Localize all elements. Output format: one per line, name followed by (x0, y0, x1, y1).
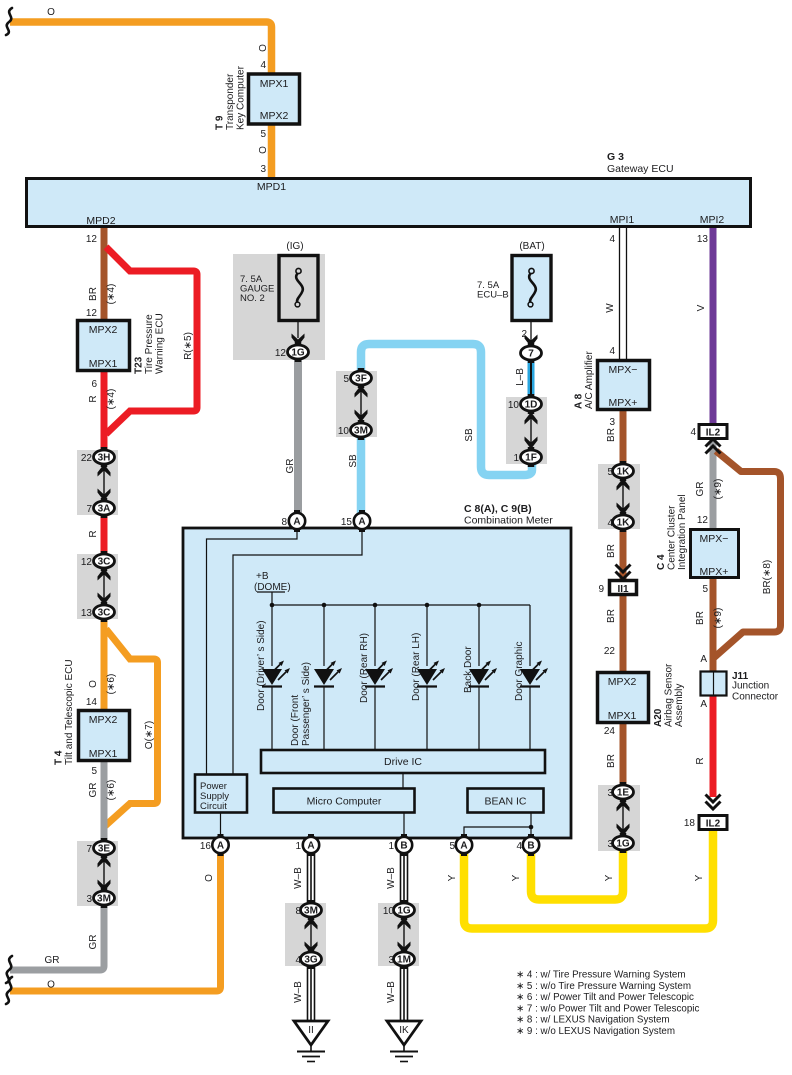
tire pressure warning ECU T23 box (78, 321, 130, 371)
svg-text:A/C Amplifier: A/C Amplifier (584, 351, 595, 409)
meter pin circle 1 A (303, 834, 319, 856)
svg-text:5: 5 (702, 584, 708, 595)
svg-text:1: 1 (295, 841, 301, 852)
svg-text:Y: Y (694, 874, 705, 881)
svg-text:C 8(A), C 9(B): C 8(A), C 9(B) (464, 503, 532, 515)
svg-text:1G: 1G (291, 348, 305, 359)
shade behind connectors 3C/3C (77, 554, 118, 619)
transponder key computer T9 box (249, 74, 300, 124)
svg-text:A: A (293, 517, 300, 528)
wire BR from A8 MPX+ pin 3 to connector 1K (620, 410, 627, 465)
svg-text:(∗6): (∗6) (106, 780, 117, 801)
svg-text:1K: 1K (617, 518, 631, 529)
wire O from Combination Meter pin 16 A to page-link bottom left (10, 850, 221, 991)
junction II1 box (610, 581, 637, 595)
svg-text:MPI1: MPI1 (610, 214, 635, 226)
combination meter box C8/C9 (183, 528, 571, 838)
svg-text:(IG): (IG) (286, 241, 303, 252)
svg-text:8: 8 (281, 517, 287, 528)
svg-text:10: 10 (508, 400, 520, 411)
svg-text:13: 13 (697, 234, 709, 245)
wire micro computer to pin 1 B (403, 813, 405, 839)
svg-text:MPX−: MPX− (700, 533, 729, 545)
svg-text:IK: IK (399, 1025, 409, 1036)
connector oval 7 (fuse ECU-B) (521, 343, 542, 363)
shade behind connectors 1D/1F (506, 397, 547, 464)
svg-text:4: 4 (516, 841, 522, 852)
svg-text:BR: BR (606, 428, 617, 442)
connector oval 1E (613, 782, 634, 802)
svg-text:SB: SB (348, 454, 359, 468)
wire L-B from fuse ECU-B connector 7 to connector 1D (528, 359, 535, 399)
micro computer box (274, 789, 415, 813)
wire O(*7) bypass loop around T4 (105, 629, 158, 826)
svg-text:A 8: A 8 (574, 393, 585, 409)
connector oval 3C pin 12 (94, 551, 115, 571)
svg-text:O: O (88, 680, 99, 688)
wire O from page-link to T9 MPX1 pin 4 (10, 22, 272, 74)
svg-text:W–B: W–B (293, 981, 304, 1003)
C4 designator rotated (656, 494, 688, 570)
svg-text:Connector: Connector (732, 692, 779, 703)
wire BR(*8) bypass loop around C4 (713, 451, 781, 659)
svg-text:8: 8 (295, 906, 301, 917)
svg-text:O: O (258, 146, 269, 154)
connector oval 1G pin 10 (394, 900, 415, 920)
svg-text:L–B: L–B (515, 368, 526, 386)
shield chevron below IL2 pin 4 (706, 439, 721, 454)
svg-text:A: A (358, 517, 365, 528)
svg-text:A: A (700, 699, 707, 710)
svg-text:MPX2: MPX2 (89, 324, 118, 336)
svg-text:10: 10 (383, 906, 395, 917)
wire W-B from Combination Meter pin 1 A to ground II (308, 850, 315, 1021)
svg-text:A: A (460, 841, 467, 852)
shield chevron above II1 (616, 565, 631, 580)
svg-text:Airbag Sensor: Airbag Sensor (664, 663, 675, 727)
svg-text:12: 12 (86, 234, 98, 245)
svg-text:ECU–B: ECU–B (477, 290, 509, 301)
svg-text:T23: T23 (134, 356, 145, 374)
svg-text:MPD1: MPD1 (257, 181, 286, 193)
svg-text:MPX2: MPX2 (260, 110, 289, 122)
A20 designator rotated (653, 663, 685, 727)
+B bus junction dots (270, 603, 275, 608)
pass-through arrow 3H to 3A (98, 464, 111, 501)
svg-text:3F: 3F (355, 374, 367, 385)
svg-text:B: B (527, 841, 534, 852)
shade behind connectors 1G/1M (378, 903, 419, 966)
svg-text:24: 24 (604, 726, 616, 737)
svg-text:5: 5 (607, 467, 613, 478)
svg-text:Door (Front: Door (Front (290, 695, 301, 746)
pass-through arrow 1G to 1M (398, 917, 411, 954)
svg-text:5: 5 (91, 766, 97, 777)
svg-text:IL2: IL2 (706, 428, 721, 439)
svg-text:T 4: T 4 (54, 750, 65, 765)
wire GR from connector 3M to page-link bottom left (10, 904, 104, 970)
svg-text:Circuit: Circuit (200, 801, 227, 812)
wire power supply circuit to pin 16 A (220, 813, 222, 839)
junction connector J11 box (701, 672, 727, 696)
svg-text:5: 5 (343, 374, 349, 385)
svg-text:3: 3 (607, 839, 613, 850)
svg-text:1D: 1D (525, 400, 538, 411)
svg-text:Door (Rear RH): Door (Rear RH) (359, 633, 370, 703)
wire GR from fuse 1G to Combination Meter pin 8 A (294, 358, 302, 516)
meter pin circle 4 B (523, 834, 539, 856)
svg-text:5: 5 (260, 129, 266, 140)
fuse ECU-B rating (477, 280, 509, 301)
gateway ECU G3 box (27, 179, 751, 227)
svg-text:O(∗7): O(∗7) (144, 721, 155, 749)
svg-text:∗ 7 : w/o Power Tilt and Power: ∗ 7 : w/o Power Tilt and Power Telescopi… (516, 1003, 699, 1014)
wire V from Gateway MPI2 pin 13 to junction IL2 pin 4 (710, 228, 717, 424)
svg-text:Transponder: Transponder (225, 73, 236, 130)
svg-text:1: 1 (513, 453, 519, 464)
connector oval 3C pin 13 (94, 602, 115, 622)
svg-text:MPD2: MPD2 (86, 215, 115, 227)
ground IK (387, 1021, 421, 1062)
fuse GAUGE NO.2 box (279, 256, 318, 321)
svg-text:(∗4): (∗4) (106, 284, 117, 305)
meter internal wire from pin 8 A to power supply circuit (207, 528, 298, 774)
svg-text:IL2: IL2 (706, 819, 721, 830)
svg-text:3: 3 (607, 788, 613, 799)
svg-text:R: R (88, 395, 99, 402)
connector oval 3G (301, 949, 322, 969)
svg-text:A: A (307, 841, 314, 852)
svg-text:14: 14 (86, 697, 98, 708)
wire O from T9 MPX2 pin 5 to Gateway ECU MPD1 pin 3 (268, 123, 276, 178)
svg-text:Tire Pressure: Tire Pressure (144, 314, 155, 374)
meter pin circle 5 A (456, 834, 472, 856)
svg-text:Drive IC: Drive IC (384, 756, 422, 768)
svg-text:3E: 3E (98, 844, 111, 855)
meter designator (464, 503, 553, 527)
svg-text:R: R (695, 757, 706, 764)
fuse ECU-B element (528, 268, 536, 307)
svg-text:GR: GR (88, 935, 99, 950)
connector oval 1F (521, 447, 542, 467)
power supply circuit box (195, 775, 247, 813)
svg-text:Key Computer: Key Computer (236, 65, 247, 130)
svg-text:MPX−: MPX− (609, 364, 638, 376)
meter pin circle 1 B (396, 834, 412, 856)
wire R from T23 MPX1 pin 6 to connector 3H (101, 372, 108, 452)
page link squiggle O bottom left (6, 977, 12, 1004)
svg-text:7: 7 (86, 844, 92, 855)
wire SB from connector 3F up over to connector 1F (361, 344, 532, 475)
svg-text:B: B (400, 841, 407, 852)
wire R(*5) bypass loop around T23 (106, 247, 197, 434)
wire Y from IL2 pin 18 down and Combination Meter pin 5 A (464, 830, 713, 929)
wire O from connector 3C pin 13 to T4 MPX2 pin 14 (101, 617, 108, 710)
+B (DOME) label (254, 571, 291, 593)
svg-text:4: 4 (607, 518, 613, 529)
svg-text:II: II (308, 1025, 314, 1036)
shade behind fuse GAUGE NO.2 and connector 1G (233, 254, 325, 360)
svg-text:∗ 5 : w/o Tire Pressure Warnin: ∗ 5 : w/o Tire Pressure Warning System (516, 981, 691, 992)
svg-text:BR: BR (695, 611, 706, 625)
svg-text:∗ 4 : w/ Tire Pressure Warning: ∗ 4 : w/ Tire Pressure Warning System (516, 970, 686, 981)
shield chevron above IL2 pin 18 (706, 795, 721, 810)
svg-text:10: 10 (338, 426, 350, 437)
svg-text:1: 1 (388, 841, 394, 852)
svg-text:MPX1: MPX1 (89, 748, 118, 760)
svg-text:3C: 3C (98, 608, 111, 619)
T9 designator rotated (215, 65, 247, 130)
shade behind connectors 3E/3M (77, 841, 118, 906)
LED column wires to drive IC (272, 687, 530, 750)
connector oval 3A (94, 498, 115, 518)
svg-text:Y: Y (511, 874, 522, 881)
svg-text:GR: GR (695, 482, 706, 497)
svg-text:BR: BR (606, 609, 617, 623)
svg-text:A20: A20 (653, 708, 664, 727)
svg-text:∗ 9 : w/o LEXUS Navigation Sys: ∗ 9 : w/o LEXUS Navigation System (516, 1026, 675, 1037)
shade behind connectors 3M/3G (285, 903, 326, 966)
T4 designator rotated (54, 659, 76, 765)
wire R from J11 to junction IL2 pin 18 (710, 696, 717, 797)
connector oval 3E (94, 838, 115, 858)
svg-text:Combination Meter: Combination Meter (464, 515, 553, 527)
svg-text:W: W (605, 303, 616, 313)
svg-text:3: 3 (609, 417, 615, 428)
svg-text:3A: 3A (98, 504, 111, 515)
BEAN IC wire junction dot (529, 825, 534, 830)
thin lead fuse ECU-B pin 2 to connector 7 with arrow (530, 321, 532, 341)
LED door driver's side (262, 661, 290, 687)
svg-text:16: 16 (200, 841, 212, 852)
notes (516, 970, 699, 1038)
wire SB from connector 3M to Combination Meter pin 15 A (357, 436, 366, 516)
svg-text:3M: 3M (354, 426, 368, 437)
svg-text:3H: 3H (98, 453, 111, 464)
svg-text:(DOME): (DOME) (254, 582, 291, 593)
svg-text:∗ 6 : w/ Power Tilt and Power: ∗ 6 : w/ Power Tilt and Power Telescopic (516, 992, 694, 1003)
svg-text:4: 4 (295, 955, 301, 966)
svg-text:R: R (88, 530, 99, 537)
LED door graphic (520, 661, 548, 687)
airbag sensor assembly A20 box (598, 673, 649, 723)
svg-text:3: 3 (260, 164, 266, 175)
arrow into connector 1G (292, 334, 305, 347)
meter internal wire from pin 15 A to power supply circuit (233, 528, 362, 774)
svg-text:(∗4): (∗4) (106, 389, 117, 410)
LED door rear RH (365, 661, 393, 687)
connector oval 3F (351, 368, 372, 388)
svg-text:MPX1: MPX1 (89, 358, 118, 370)
drive IC box (261, 750, 545, 773)
svg-text:O: O (47, 980, 55, 991)
BEAN IC box (468, 789, 544, 813)
svg-text:9: 9 (598, 584, 604, 595)
svg-text:Warning ECU: Warning ECU (155, 313, 166, 374)
LED label door front passenger's side (290, 662, 312, 746)
svg-text:Junction: Junction (732, 681, 769, 692)
junction IL2 pin 18 box (699, 816, 727, 830)
svg-text:Y: Y (447, 874, 458, 881)
svg-text:Tilt and Telescopic ECU: Tilt and Telescopic ECU (64, 659, 75, 765)
svg-text:1G: 1G (616, 839, 630, 850)
meter pin circle 16 A (212, 834, 228, 856)
svg-text:R(∗5): R(∗5) (183, 332, 194, 360)
wire drive IC to micro computer (402, 773, 404, 788)
svg-text:Door (Rear LH): Door (Rear LH) (411, 633, 422, 701)
thin lead fuse GAUGE to connector 1G with arrow (297, 305, 299, 338)
svg-text:4: 4 (609, 234, 615, 245)
pass-through arrow 3C to 3C (98, 568, 111, 605)
pass-through arrow 3F to 3M (355, 385, 368, 422)
svg-text:6: 6 (91, 379, 97, 390)
svg-text:3M: 3M (97, 894, 111, 905)
svg-text:1G: 1G (397, 906, 411, 917)
svg-text:BR: BR (606, 754, 617, 768)
svg-text:7: 7 (86, 504, 92, 515)
svg-text:Assembly: Assembly (674, 684, 685, 727)
connector oval 1G (A20 chain) (613, 833, 634, 853)
wire BR from Gateway MPD2 pin 12 to T23 MPX2 pin 12 (101, 228, 108, 320)
connector oval 3M (351, 420, 372, 440)
svg-text:7: 7 (528, 349, 534, 360)
svg-text:5: 5 (449, 841, 455, 852)
svg-text:SB: SB (464, 428, 475, 442)
A/C amplifier A8 box (598, 361, 650, 410)
J11 designator (732, 671, 779, 703)
fuse ECU-B box (512, 256, 551, 321)
svg-text:G 3: G 3 (607, 151, 624, 163)
svg-text:13: 13 (81, 608, 93, 619)
fuse GAUGE rating (240, 274, 274, 304)
svg-text:1K: 1K (617, 467, 631, 478)
A8 designator rotated (574, 351, 596, 409)
svg-text:MPX1: MPX1 (260, 78, 289, 90)
svg-text:Y: Y (604, 874, 615, 881)
svg-text:MPX1: MPX1 (608, 710, 637, 722)
power supply circuit label (200, 781, 229, 812)
svg-text:15: 15 (341, 517, 353, 528)
LED door front passenger's side (314, 661, 342, 687)
svg-text:3M: 3M (304, 906, 318, 917)
svg-text:12: 12 (275, 348, 287, 359)
svg-text:+B: +B (256, 571, 269, 582)
wire Y from Combination Meter pin 4 B to connector 1G of A20 chain (531, 849, 623, 900)
svg-text:W–B: W–B (386, 867, 397, 889)
svg-text:T 9: T 9 (215, 115, 226, 130)
T23 designator rotated (134, 313, 166, 374)
wire BR from junction II1 to A20 MPX2 pin 22 (620, 596, 627, 672)
svg-text:BR(∗8): BR(∗8) (762, 560, 773, 595)
pass-through arrow 1D to 1F (525, 412, 538, 449)
LED back door (469, 661, 497, 687)
svg-text:1M: 1M (397, 955, 411, 966)
svg-text:W–B: W–B (386, 981, 397, 1003)
svg-text:Gateway ECU: Gateway ECU (607, 163, 674, 175)
svg-text:O: O (47, 7, 55, 18)
svg-text:O: O (258, 44, 269, 52)
svg-text:MPX+: MPX+ (609, 397, 638, 409)
connector oval 3M pin 8 (301, 900, 322, 920)
fuse GAUGE NO.2 element (295, 268, 303, 307)
svg-text:(BAT): (BAT) (519, 241, 544, 252)
svg-text:C 4: C 4 (656, 554, 667, 570)
wire W from Gateway MPI1 pin 4 to A8 MPX- pin 4 (620, 228, 627, 359)
svg-text:MPX2: MPX2 (608, 676, 637, 688)
svg-text:4: 4 (260, 60, 266, 71)
junction IL2 pin 4 box (699, 425, 727, 439)
svg-text:(∗6): (∗6) (106, 674, 117, 695)
svg-text:Integration Panel: Integration Panel (677, 494, 688, 570)
svg-text:2: 2 (521, 329, 527, 340)
svg-text:12: 12 (86, 308, 98, 319)
shade behind connectors 1K/1K (598, 464, 640, 529)
svg-text:A: A (700, 654, 707, 665)
svg-text:Door (Driver’ s Side): Door (Driver’ s Side) (256, 620, 267, 711)
svg-text:BR: BR (606, 544, 617, 558)
wire BR from A20 MPX1 pin 24 to connector 1E (620, 723, 627, 787)
svg-text:MPX2: MPX2 (89, 714, 118, 726)
svg-text:(∗9): (∗9) (713, 608, 724, 629)
wire GR(*9) from junction IL2 to C4 MPX- pin 12 (710, 439, 717, 529)
svg-text:Micro Computer: Micro Computer (307, 796, 382, 808)
connector oval 3H (94, 447, 115, 467)
arrow into connector 7 (525, 335, 538, 348)
svg-text:Passenger’ s Side): Passenger’ s Side) (301, 662, 312, 746)
shade behind connectors 1E/1G (598, 785, 640, 851)
svg-text:BEAN IC: BEAN IC (484, 796, 526, 808)
meter pin circle 15 A (354, 510, 370, 532)
svg-text:3: 3 (388, 955, 394, 966)
pass-through arrow 3M to 3G (305, 917, 318, 954)
svg-text:NO. 2: NO. 2 (240, 293, 265, 304)
wire BR(*9) from C4 MPX+ pin 5 to junction connector J11 (710, 579, 717, 672)
svg-text:18: 18 (684, 818, 696, 829)
page link squiggle top left (6, 8, 12, 35)
svg-text:12: 12 (697, 515, 709, 526)
svg-text:3: 3 (86, 894, 92, 905)
svg-text:Door Graphic: Door Graphic (514, 642, 525, 701)
svg-text:3C: 3C (98, 557, 111, 568)
center cluster integration panel C4 box (691, 530, 739, 578)
G3 designator (607, 151, 674, 175)
shade behind connectors 3F/3M (336, 371, 377, 437)
pass-through arrow 3E to 3M (98, 855, 111, 892)
connector oval 1K pin 5 (613, 461, 634, 481)
page link squiggle GR bottom left (6, 956, 12, 983)
connector oval 3M (left bottom) (94, 888, 115, 908)
connector oval 1K pin 4 (613, 512, 634, 532)
+B (DOME) feed bar and bus (257, 592, 530, 666)
connector oval 1M (394, 949, 415, 969)
svg-text:4: 4 (690, 427, 696, 438)
svg-text:V: V (696, 304, 707, 311)
svg-text:12: 12 (81, 557, 93, 568)
ground II (294, 1021, 328, 1062)
svg-text:BR: BR (88, 287, 99, 301)
svg-text:(∗9): (∗9) (713, 479, 724, 500)
wire BR from connector 1K pin 4 to junction II1 pin 9 (620, 528, 627, 581)
svg-text:MPI2: MPI2 (700, 214, 725, 226)
wire R from connector 3A to connector 3C (101, 514, 108, 557)
LED door rear LH (417, 661, 445, 687)
wire BEAN IC to pins 5 A and 4 B (464, 813, 531, 839)
svg-text:3G: 3G (304, 955, 318, 966)
shade behind connectors 3H/3A (77, 450, 118, 515)
tilt and telescopic ECU T4 box (79, 711, 130, 761)
svg-text:Center Cluster: Center Cluster (667, 505, 678, 570)
svg-text:22: 22 (604, 646, 616, 657)
